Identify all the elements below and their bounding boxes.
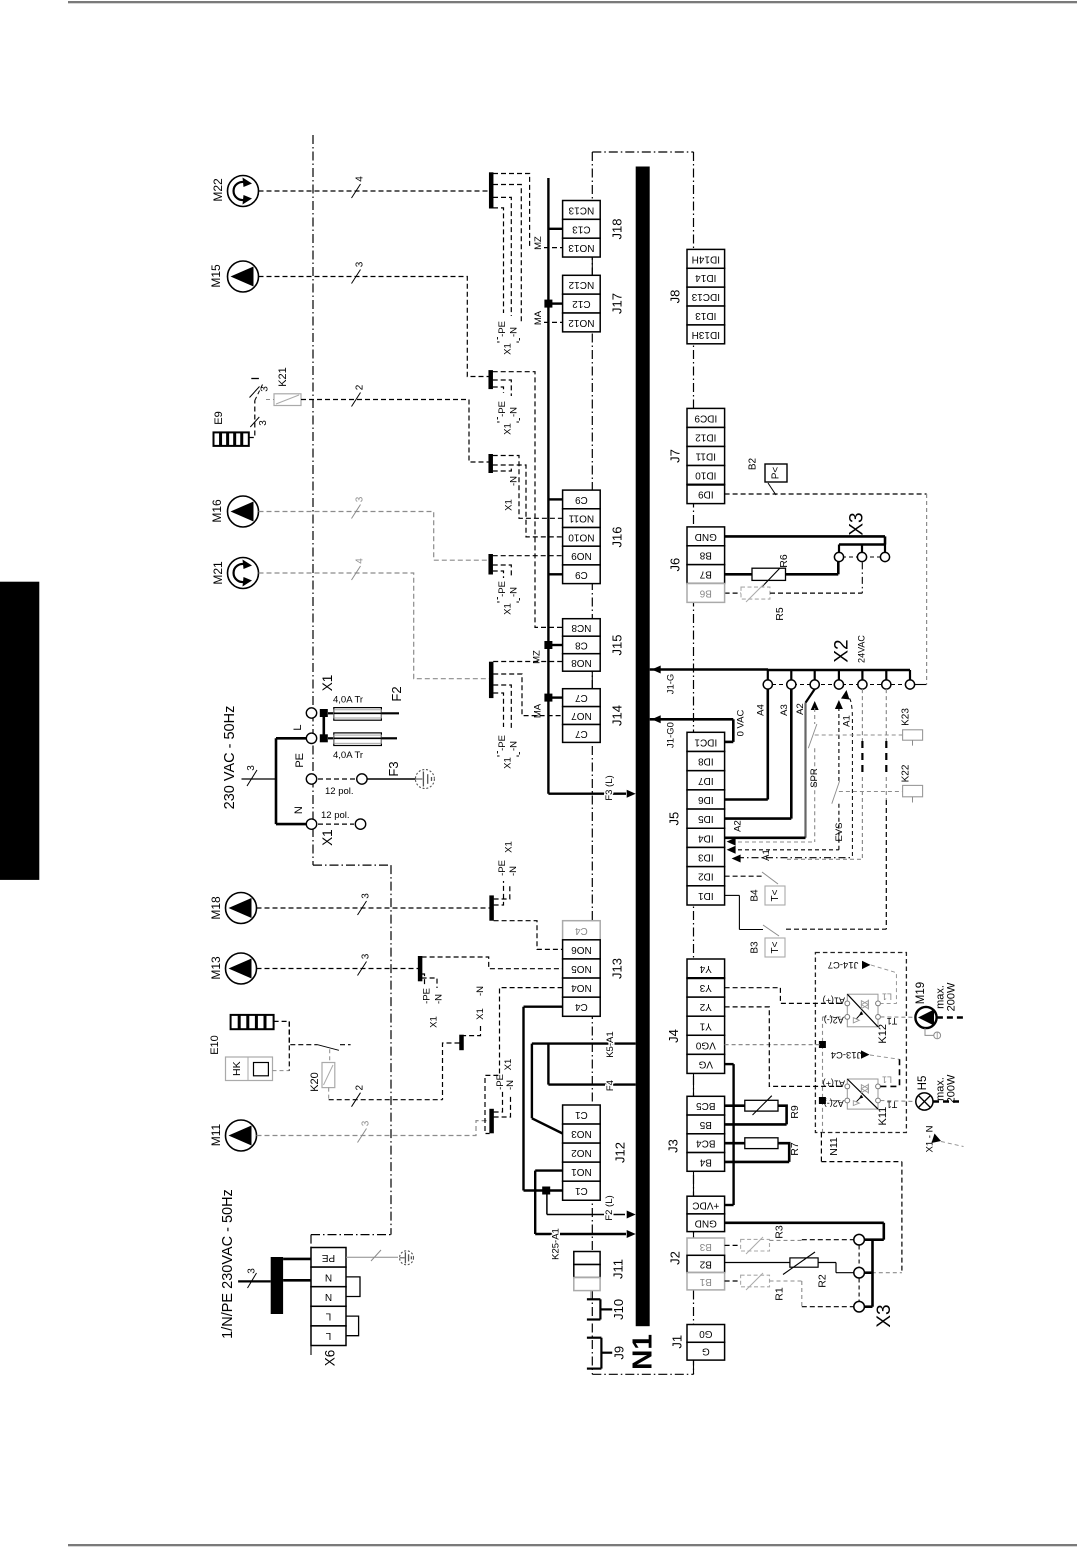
svg-text:230 VAC - 50Hz: 230 VAC - 50Hz (222, 706, 238, 810)
svg-text:NO6: NO6 (571, 944, 592, 955)
svg-text:E9: E9 (213, 411, 225, 424)
svg-text:B1: B1 (699, 1276, 712, 1287)
svg-text:NO3: NO3 (571, 1128, 592, 1139)
svg-text:K5-A1: K5-A1 (605, 1031, 616, 1057)
svg-text:H5: H5 (917, 1076, 929, 1091)
svg-text:4: 4 (355, 558, 366, 564)
svg-text:R6: R6 (778, 554, 790, 568)
svg-text:A2: A2 (733, 820, 744, 832)
svg-text:N: N (325, 1271, 332, 1282)
svg-text:L: L (292, 725, 304, 731)
svg-text:X1: X1 (503, 1059, 514, 1071)
svg-text:A4: A4 (756, 704, 767, 716)
svg-text:3: 3 (247, 1268, 258, 1274)
svg-text:J13-C4: J13-C4 (831, 1049, 862, 1060)
svg-text:-N: -N (433, 994, 444, 1004)
svg-text:Y2: Y2 (699, 1001, 712, 1012)
svg-text:X3: X3 (847, 512, 868, 535)
svg-text:F2 (L): F2 (L) (604, 1195, 615, 1220)
svg-text:J2: J2 (668, 1251, 683, 1265)
svg-text:MZ: MZ (533, 236, 544, 250)
svg-text:NO10: NO10 (568, 531, 595, 542)
svg-text:PE: PE (294, 753, 306, 768)
svg-text:-N: -N (508, 866, 519, 876)
svg-text:-N: -N (475, 986, 486, 996)
svg-text:NO5: NO5 (571, 963, 592, 974)
svg-text:Y1: Y1 (699, 1020, 712, 1031)
svg-text:MA: MA (533, 310, 544, 325)
svg-text:R1: R1 (774, 1287, 786, 1301)
svg-text:MA: MA (533, 703, 544, 718)
svg-text:C7: C7 (575, 692, 588, 703)
svg-text:200W: 200W (946, 982, 958, 1011)
svg-text:200W: 200W (946, 1074, 958, 1103)
svg-text:X1: X1 (429, 1016, 440, 1028)
svg-text:IDC1: IDC1 (694, 736, 717, 747)
svg-text:BC5: BC5 (696, 1100, 716, 1111)
svg-text:SPR: SPR (809, 768, 820, 788)
svg-text:4: 4 (355, 176, 366, 182)
svg-text:B5: B5 (699, 1119, 712, 1130)
svg-text:J12: J12 (613, 1142, 628, 1163)
svg-text:ID4: ID4 (698, 832, 714, 843)
svg-text:M22: M22 (211, 178, 225, 202)
svg-text:A1(+): A1(+) (823, 995, 845, 1005)
svg-text:R5: R5 (774, 607, 786, 621)
svg-text:T<: T< (770, 941, 781, 953)
svg-text:ID13: ID13 (695, 310, 717, 321)
svg-text:X1: X1 (504, 499, 515, 511)
svg-text:J10: J10 (611, 1299, 626, 1320)
svg-text:J6: J6 (668, 558, 683, 572)
svg-text:NO13: NO13 (568, 242, 595, 253)
svg-text:3: 3 (258, 420, 269, 426)
svg-text:R9: R9 (789, 1105, 801, 1119)
svg-text:2: 2 (355, 384, 366, 390)
svg-text:M13: M13 (209, 956, 223, 980)
svg-text:X1: X1 (320, 829, 335, 846)
svg-text:J14: J14 (610, 705, 625, 726)
svg-text:J3: J3 (666, 1139, 681, 1153)
svg-text:J1-G0: J1-G0 (665, 722, 676, 748)
svg-text:K20: K20 (309, 1072, 321, 1092)
svg-text:ID1: ID1 (698, 890, 714, 901)
svg-text:L1: L1 (882, 991, 892, 1001)
svg-text:J4: J4 (666, 1029, 681, 1043)
svg-text:C7: C7 (575, 728, 588, 739)
svg-text:NO9: NO9 (571, 550, 592, 561)
svg-text:E10: E10 (209, 1035, 221, 1055)
svg-text:-N: -N (509, 587, 520, 597)
svg-text:-N: -N (509, 476, 520, 486)
svg-text:NO12: NO12 (568, 317, 595, 328)
svg-text:P<: P< (771, 467, 782, 480)
svg-text:J1: J1 (670, 1335, 685, 1349)
svg-text:ID10: ID10 (695, 470, 717, 481)
svg-text:X3: X3 (874, 1304, 895, 1327)
svg-text:3: 3 (260, 386, 271, 392)
svg-text:J18: J18 (610, 219, 625, 240)
svg-text:K12: K12 (877, 1024, 889, 1044)
svg-text:ID2: ID2 (698, 871, 714, 882)
svg-text:NC12: NC12 (568, 279, 594, 290)
svg-text:-N: -N (505, 1080, 516, 1090)
svg-text:N: N (325, 1291, 332, 1302)
svg-text:NO8: NO8 (571, 657, 592, 668)
svg-text:VG: VG (698, 1058, 713, 1069)
svg-text:NO4: NO4 (571, 982, 592, 993)
svg-text:2: 2 (355, 1084, 366, 1090)
svg-text:IDC9: IDC9 (694, 412, 717, 423)
svg-text:ID9: ID9 (698, 489, 714, 500)
svg-text:F2: F2 (389, 686, 404, 701)
svg-text:3: 3 (246, 765, 257, 771)
svg-text:ID6: ID6 (698, 794, 714, 805)
svg-text:B4: B4 (750, 889, 761, 902)
svg-text:L: L (325, 1311, 331, 1322)
svg-text:A1: A1 (761, 849, 772, 861)
svg-text:M16: M16 (210, 499, 224, 523)
svg-text:B8: B8 (699, 550, 712, 561)
svg-text:B3: B3 (699, 1241, 712, 1252)
svg-text:J1-G: J1-G (665, 674, 676, 695)
svg-text:A2(-): A2(-) (824, 1015, 844, 1025)
svg-text:B4: B4 (699, 1156, 712, 1167)
svg-text:J5: J5 (667, 812, 682, 826)
svg-text:HK: HK (231, 1061, 243, 1076)
svg-text:L: L (325, 1330, 331, 1341)
svg-text:1/N/PE 230VAC - 50Hz: 1/N/PE 230VAC - 50Hz (220, 1189, 236, 1339)
svg-text:B2: B2 (699, 1258, 712, 1269)
svg-text:ID5: ID5 (698, 813, 714, 824)
svg-text:VG0: VG0 (695, 1039, 715, 1050)
svg-text:ID8: ID8 (698, 756, 714, 767)
svg-text:12 pol.: 12 pol. (321, 810, 350, 821)
svg-text:J14-C7: J14-C7 (828, 959, 859, 970)
svg-text:-N: -N (509, 741, 520, 751)
svg-text:3: 3 (355, 261, 366, 267)
svg-text:C4: C4 (575, 925, 588, 936)
svg-text:J11: J11 (611, 1259, 626, 1279)
svg-text:N: N (293, 806, 305, 814)
svg-text:N11: N11 (828, 1137, 840, 1156)
svg-text:3: 3 (361, 893, 372, 899)
svg-text:F4: F4 (605, 1080, 616, 1091)
svg-text:C13: C13 (572, 223, 591, 234)
svg-text:R2: R2 (817, 1274, 829, 1288)
svg-text:+VDC: +VDC (692, 1200, 719, 1211)
svg-text:A2(-): A2(-) (824, 1099, 844, 1109)
svg-text:IDC13: IDC13 (691, 291, 720, 302)
svg-text:X1: X1 (504, 841, 515, 853)
svg-text:-N: -N (509, 407, 520, 417)
svg-text:J7: J7 (668, 449, 683, 463)
svg-text:X1: X1 (475, 1008, 486, 1020)
svg-text:L1: L1 (882, 1074, 892, 1084)
svg-text:A1(+): A1(+) (823, 1078, 845, 1088)
svg-text:ID7: ID7 (698, 775, 714, 786)
svg-text:GND: GND (695, 1217, 717, 1228)
svg-text:A1: A1 (842, 715, 853, 727)
svg-text:-PE: -PE (422, 988, 433, 1004)
svg-text:K22: K22 (901, 764, 912, 782)
svg-text:-N: -N (509, 327, 520, 337)
svg-text:X1: X1 (503, 603, 514, 615)
svg-text:C1: C1 (575, 1109, 588, 1120)
svg-text:-PE: -PE (497, 581, 508, 597)
svg-text:24VAC: 24VAC (857, 635, 867, 663)
svg-text:X1: X1 (320, 675, 335, 692)
svg-text:M15: M15 (209, 264, 223, 288)
svg-text:C4: C4 (575, 1001, 588, 1012)
svg-text:-PE: -PE (497, 401, 508, 417)
svg-text:B6: B6 (699, 587, 712, 598)
svg-text:NO7: NO7 (571, 710, 592, 721)
svg-text:-PE: -PE (497, 735, 508, 751)
svg-text:ID14H: ID14H (692, 253, 720, 264)
svg-text:X6: X6 (323, 1350, 338, 1367)
svg-text:A3: A3 (779, 704, 790, 716)
svg-text:NC13: NC13 (568, 204, 594, 215)
svg-text:J15: J15 (610, 635, 625, 656)
svg-text:B3: B3 (750, 941, 761, 954)
svg-text:A2: A2 (795, 703, 806, 715)
svg-text:K11: K11 (877, 1107, 889, 1126)
svg-text:B2: B2 (748, 457, 759, 470)
svg-text:ID14: ID14 (695, 272, 717, 283)
svg-text:M19: M19 (915, 982, 927, 1004)
svg-text:PE: PE (322, 1252, 336, 1263)
svg-text:C12: C12 (572, 298, 591, 309)
svg-text:X2: X2 (832, 639, 853, 662)
svg-text:NO1: NO1 (571, 1166, 592, 1177)
svg-text:J13: J13 (610, 958, 625, 979)
svg-text:BC4: BC4 (696, 1138, 716, 1149)
svg-text:4,0A Tr: 4,0A Tr (333, 750, 363, 761)
svg-text:3: 3 (361, 953, 372, 959)
svg-text:C1: C1 (575, 1185, 588, 1196)
svg-text:N1: N1 (627, 1334, 658, 1370)
svg-text:J8: J8 (668, 290, 683, 304)
svg-text:-PE: -PE (497, 860, 508, 876)
svg-text:GND: GND (695, 531, 717, 542)
svg-text:G: G (702, 1346, 710, 1357)
svg-text:T<: T< (770, 889, 781, 901)
svg-text:3: 3 (355, 496, 366, 502)
svg-text:Y3: Y3 (699, 982, 712, 993)
svg-text:M18: M18 (209, 896, 223, 920)
svg-text:MZ: MZ (532, 650, 543, 664)
svg-text:J16: J16 (610, 527, 625, 548)
svg-text:G0: G0 (699, 1328, 713, 1339)
svg-text:K25-A1: K25-A1 (551, 1228, 562, 1260)
svg-text:EVS: EVS (834, 822, 845, 841)
svg-text:B7: B7 (699, 569, 712, 580)
svg-text:NO2: NO2 (571, 1147, 592, 1158)
svg-text:M21: M21 (211, 561, 225, 585)
svg-text:X1: X1 (503, 343, 514, 355)
svg-text:NC8: NC8 (571, 622, 591, 633)
svg-text:0 VAC: 0 VAC (736, 709, 747, 736)
svg-text:3: 3 (361, 1120, 372, 1126)
svg-text:12 pol.: 12 pol. (325, 786, 354, 797)
svg-text:ID12: ID12 (695, 431, 717, 442)
svg-text:F3: F3 (386, 761, 401, 776)
svg-text:ID13H: ID13H (692, 329, 720, 340)
svg-text:J9: J9 (612, 1346, 627, 1360)
svg-text:M11: M11 (209, 1123, 223, 1146)
svg-text:4,0A Tr: 4,0A Tr (333, 695, 363, 706)
svg-text:F3 (L): F3 (L) (604, 775, 615, 800)
svg-text:R3: R3 (774, 1225, 786, 1239)
svg-text:R7: R7 (789, 1142, 801, 1156)
svg-text:NO11: NO11 (568, 513, 594, 524)
svg-text:J17: J17 (610, 293, 625, 314)
svg-text:Y4: Y4 (699, 963, 712, 974)
svg-text:X1: X1 (503, 423, 514, 435)
svg-text:ID11: ID11 (695, 451, 716, 462)
svg-text:C8: C8 (575, 639, 588, 650)
svg-text:-PE: -PE (497, 321, 508, 337)
svg-text:C9: C9 (575, 494, 588, 505)
svg-text:K23: K23 (901, 708, 912, 726)
svg-text:X1: X1 (503, 757, 514, 769)
svg-text:K21: K21 (277, 367, 289, 387)
svg-text:ID3: ID3 (698, 852, 714, 863)
svg-text:C9: C9 (575, 569, 588, 580)
